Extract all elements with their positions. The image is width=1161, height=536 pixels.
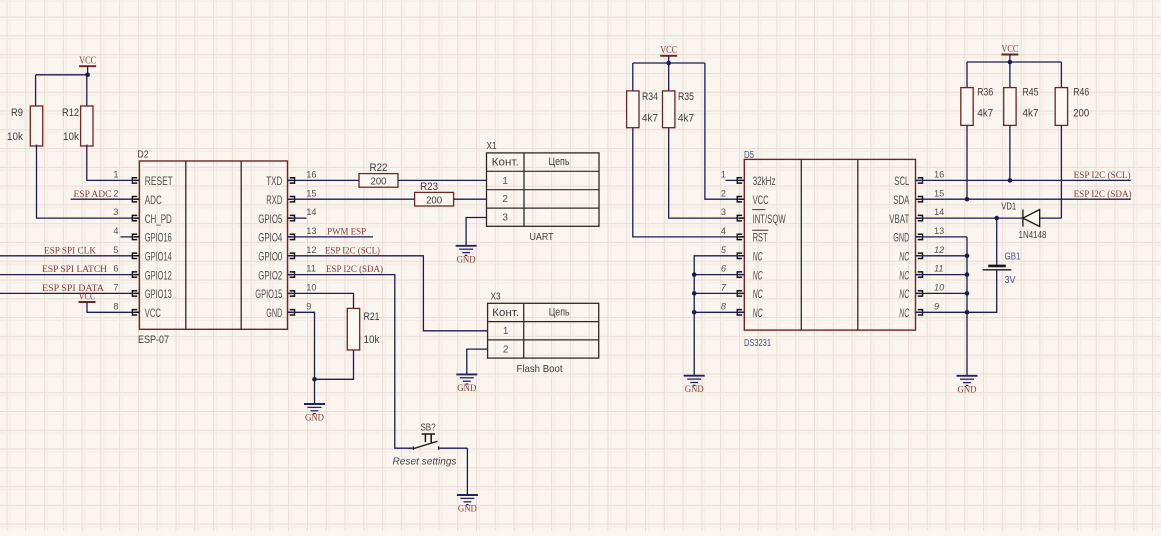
- pin 3 INT/SQW: [737, 215, 744, 220]
- svg-text:15: 15: [934, 188, 944, 198]
- wire R21 to GND net: [315, 350, 354, 379]
- svg-text:R22: R22: [370, 162, 388, 174]
- svg-text:PWM ESP: PWM ESP: [327, 227, 366, 238]
- wire GND pin 9: [288, 312, 315, 404]
- svg-text:11: 11: [306, 264, 316, 274]
- svg-text:VCC: VCC: [145, 306, 161, 320]
- pin 8 VCC: [132, 310, 139, 315]
- svg-text:3V: 3V: [1005, 275, 1016, 286]
- wire TXD to R22: [288, 179, 360, 181]
- svg-text:GB1: GB1: [1005, 252, 1021, 263]
- junction: [965, 310, 970, 315]
- svg-text:SDA: SDA: [893, 193, 909, 207]
- svg-text:9: 9: [934, 301, 939, 311]
- svg-text:TXD: TXD: [266, 174, 282, 188]
- pin 13 GND: [916, 234, 923, 239]
- svg-text:GPIO16: GPIO16: [145, 231, 172, 245]
- svg-text:CH_PD: CH_PD: [145, 212, 172, 226]
- wire ADC: [71, 198, 140, 200]
- svg-text:GND: GND: [893, 231, 909, 245]
- pin 9 GND: [288, 310, 295, 315]
- pin 16 SCL: [916, 178, 923, 183]
- resistor R12 (10k): [81, 106, 93, 146]
- svg-text:Reset settings: Reset settings: [393, 455, 458, 467]
- svg-text:NC: NC: [899, 306, 909, 320]
- resistor R21 (10k): [347, 308, 359, 350]
- svg-text:7: 7: [721, 283, 727, 293]
- svg-text:ADC: ADC: [145, 193, 162, 207]
- resistor R9 (10k): [30, 106, 42, 146]
- wire PWM_ESP: [288, 236, 374, 238]
- junction: [692, 310, 697, 315]
- svg-text:NC: NC: [753, 268, 763, 282]
- ground (SB): [457, 495, 478, 505]
- svg-text:4: 4: [113, 226, 118, 236]
- junction: [692, 291, 697, 296]
- wire GPIO0 to X3.1: [288, 256, 488, 331]
- svg-text:VCC: VCC: [1001, 44, 1018, 55]
- wire R23 to X1.2: [454, 198, 487, 200]
- junction: [1008, 60, 1013, 65]
- wire R36 to SDA: [966, 125, 968, 199]
- svg-text:R46: R46: [1073, 87, 1089, 99]
- svg-text:4k7: 4k7: [977, 107, 993, 119]
- junction: [965, 272, 970, 277]
- pin 14 GPIO5: [288, 217, 307, 219]
- svg-text:GND: GND: [457, 384, 476, 394]
- resistor R45 (4k7): [1004, 88, 1016, 126]
- svg-text:16: 16: [306, 170, 316, 180]
- svg-text:VCC: VCC: [660, 45, 677, 56]
- svg-text:RST: RST: [753, 231, 768, 245]
- svg-text:NC: NC: [899, 287, 909, 301]
- resistor R34 (4k7): [627, 91, 639, 128]
- svg-text:R36: R36: [977, 87, 993, 99]
- svg-text:2: 2: [503, 344, 509, 355]
- svg-text:D5: D5: [744, 150, 754, 161]
- connector X3 Flash Boot: [488, 303, 599, 358]
- svg-text:VCC: VCC: [753, 193, 769, 207]
- wire GPIO13: [0, 292, 139, 294]
- wire VCC stub: [668, 56, 670, 63]
- pin 16 TXD: [288, 178, 295, 183]
- wire GPIO15 to R21: [288, 293, 354, 308]
- wire GND bus: [966, 237, 968, 376]
- svg-text:3: 3: [502, 213, 508, 224]
- svg-text:ESP SPI LATCH: ESP SPI LATCH: [42, 264, 107, 275]
- wire to R46: [1060, 62, 1062, 88]
- ground (X3): [456, 374, 477, 384]
- junction: [965, 254, 970, 259]
- svg-text:1: 1: [721, 170, 726, 180]
- pin 12 NC: [916, 253, 923, 258]
- pin 4 GPIO16: [120, 236, 139, 238]
- wire VCC stub: [1009, 55, 1011, 63]
- svg-text:7: 7: [113, 283, 118, 293]
- wire R34 to RST: [633, 128, 745, 237]
- svg-text:NC: NC: [753, 287, 763, 301]
- svg-text:9: 9: [306, 301, 311, 311]
- wire pin12: [916, 255, 968, 257]
- svg-text:8: 8: [721, 301, 727, 311]
- svg-text:GPIO14: GPIO14: [145, 250, 172, 264]
- junction: [312, 377, 317, 382]
- svg-text:200: 200: [1073, 107, 1089, 119]
- svg-text:R12: R12: [62, 107, 79, 119]
- svg-text:GND: GND: [266, 306, 282, 320]
- resistor R23 (200): [415, 192, 454, 206]
- wire X1.3 to GND: [466, 218, 486, 246]
- battery GB1 3V: [988, 265, 1006, 268]
- svg-text:4k7: 4k7: [642, 112, 658, 124]
- pin 15 RXD: [288, 197, 295, 202]
- pin 5 GPIO14: [132, 253, 139, 258]
- junction: [692, 272, 697, 277]
- wire SDA: [916, 198, 1131, 200]
- pin 11 GPIO2: [288, 272, 295, 277]
- svg-text:GPIO2: GPIO2: [258, 268, 282, 282]
- svg-text:ESP I2C (SCL): ESP I2C (SCL): [325, 245, 380, 256]
- pin 4 RST: [737, 234, 744, 239]
- svg-text:10: 10: [934, 283, 945, 293]
- pin 13 GPIO4: [288, 234, 295, 239]
- overbar INT: [752, 209, 765, 211]
- wire R9 to CH_PD: [37, 145, 140, 219]
- wire SB to GND: [439, 447, 467, 449]
- junction: [994, 216, 999, 221]
- svg-text:2: 2: [502, 194, 508, 205]
- svg-text:R21: R21: [364, 311, 380, 323]
- svg-text:ESP ADC: ESP ADC: [74, 189, 112, 200]
- overbar RST: [752, 229, 768, 231]
- svg-text:SB?: SB?: [421, 421, 436, 433]
- svg-text:GND: GND: [685, 385, 704, 395]
- svg-text:RESET: RESET: [145, 174, 173, 188]
- svg-text:GPIO0: GPIO0: [258, 250, 282, 264]
- svg-text:16: 16: [934, 170, 944, 180]
- pin 15 SDA: [916, 197, 923, 202]
- svg-text:X3: X3: [491, 290, 501, 302]
- svg-text:NC: NC: [753, 306, 763, 320]
- pin 8 NC: [737, 310, 744, 315]
- pin 7 NC: [737, 291, 744, 296]
- resistor R22 (200): [359, 174, 398, 188]
- svg-text:ESP I2C (SCL): ESP I2C (SCL): [1074, 170, 1131, 181]
- svg-text:6: 6: [721, 264, 727, 274]
- junction: [85, 73, 90, 78]
- svg-text:15: 15: [306, 188, 316, 198]
- svg-text:12: 12: [306, 245, 316, 255]
- pin 12 GPIO0: [288, 253, 295, 258]
- svg-text:GPIO13: GPIO13: [145, 287, 172, 301]
- svg-text:R34: R34: [642, 91, 658, 103]
- wire pin11: [916, 274, 968, 276]
- wire VD1 to R46: [1040, 217, 1062, 219]
- pin 7 GPIO13: [132, 291, 139, 296]
- svg-text:32kHz: 32kHz: [753, 174, 776, 188]
- svg-text:3: 3: [721, 207, 726, 217]
- IC D2 ESP-07: [139, 161, 287, 329]
- svg-text:DS3231: DS3231: [744, 337, 771, 349]
- svg-text:VCC: VCC: [79, 56, 96, 67]
- wire pin9: [916, 311, 968, 313]
- wire down: [466, 448, 468, 495]
- wire to R35: [668, 63, 670, 91]
- pin 14 VBAT: [916, 215, 923, 220]
- resistor R36 (4k7): [961, 88, 973, 126]
- svg-text:ESP I2C (SDA): ESP I2C (SDA): [1074, 189, 1132, 200]
- wire VCC to pin 8: [87, 302, 139, 312]
- wire RXD to R23: [288, 198, 415, 200]
- wire pin6: [694, 274, 744, 276]
- svg-text:NC: NC: [899, 250, 909, 264]
- svg-text:NC: NC: [753, 250, 763, 264]
- junction: [965, 291, 970, 296]
- wire R46 to VD1: [1060, 125, 1062, 218]
- ground (D2): [304, 404, 325, 414]
- svg-text:Цепь: Цепь: [549, 156, 570, 168]
- wire VCC rail: [633, 62, 705, 64]
- wire GND pin13: [916, 236, 968, 238]
- wire VCC to D5 pin2: [705, 63, 744, 199]
- wire VBAT to VD1: [916, 217, 1023, 219]
- ground (X1): [456, 246, 477, 256]
- wire R35 to INT/SQW: [669, 128, 745, 218]
- wire pin10: [916, 292, 968, 294]
- svg-text:Цепь: Цепь: [549, 307, 570, 319]
- svg-text:GPIO5: GPIO5: [258, 212, 282, 226]
- svg-text:10k: 10k: [63, 131, 79, 143]
- svg-text:GND: GND: [457, 255, 476, 265]
- ground (D5 left): [684, 376, 705, 386]
- svg-text:2: 2: [721, 188, 726, 198]
- junction: [1008, 178, 1013, 183]
- svg-text:1: 1: [113, 170, 118, 180]
- svg-text:1: 1: [503, 326, 509, 337]
- svg-text:13: 13: [934, 226, 944, 236]
- svg-text:GND: GND: [958, 385, 977, 395]
- switch SB?: [413, 434, 438, 450]
- svg-text:4k7: 4k7: [1023, 107, 1039, 119]
- svg-text:10k: 10k: [364, 334, 380, 346]
- diode VD1 1N4148: [1023, 210, 1040, 227]
- svg-text:SCL: SCL: [894, 174, 909, 188]
- svg-text:4k7: 4k7: [678, 112, 694, 124]
- svg-text:VD1: VD1: [1001, 201, 1016, 213]
- svg-text:4: 4: [721, 226, 726, 236]
- svg-text:ESP-07: ESP-07: [138, 334, 169, 346]
- wire R12 to RESET: [87, 145, 140, 181]
- svg-text:GPIO12: GPIO12: [145, 268, 172, 282]
- pin 2 VCC: [737, 197, 744, 202]
- pin 6 NC: [737, 272, 744, 277]
- wire GPIO14: [0, 255, 139, 257]
- svg-text:Конт.: Конт.: [492, 307, 519, 319]
- svg-text:R35: R35: [678, 91, 694, 103]
- svg-text:R9: R9: [11, 107, 23, 119]
- wire to R45: [1009, 62, 1011, 88]
- pin 3 CH_PD: [132, 215, 139, 220]
- svg-text:GPIO15: GPIO15: [255, 287, 282, 301]
- junction: [666, 61, 671, 66]
- wire GB1 to GND bus: [967, 270, 997, 313]
- svg-text:D2: D2: [138, 149, 149, 161]
- svg-text:GPIO4: GPIO4: [258, 231, 282, 245]
- wire VCC rail: [967, 61, 1061, 63]
- pin 1 RESET: [132, 178, 139, 183]
- svg-text:8: 8: [113, 301, 118, 311]
- wire GPIO12: [0, 274, 139, 276]
- wire to R34: [632, 63, 634, 91]
- connector X1 UART: [487, 153, 600, 226]
- svg-text:RXD: RXD: [266, 193, 282, 207]
- svg-text:GND: GND: [305, 414, 324, 424]
- pin 2 ADC: [132, 197, 139, 202]
- svg-text:11: 11: [934, 264, 944, 274]
- svg-text:12: 12: [934, 245, 944, 255]
- wire R22 to X1.1: [398, 179, 487, 181]
- wire to R36: [966, 62, 968, 88]
- svg-text:13: 13: [306, 226, 316, 236]
- wire VCC rail: [36, 74, 88, 76]
- wire pin7: [694, 292, 744, 294]
- svg-text:200: 200: [426, 195, 442, 207]
- svg-text:200: 200: [371, 176, 387, 188]
- wire to R12: [86, 75, 88, 106]
- svg-text:GND: GND: [458, 505, 477, 515]
- pin 1 32kHz: [726, 179, 745, 181]
- svg-text:R45: R45: [1023, 87, 1039, 99]
- IC D5 DS3231: [744, 159, 915, 330]
- svg-text:UART: UART: [530, 231, 554, 243]
- wire GPIO2 to SB: [288, 275, 413, 449]
- pin 10 NC: [916, 291, 923, 296]
- pin 5 NC: [737, 253, 744, 258]
- wire X3.2 to GND: [467, 349, 488, 374]
- ground (D5 right): [957, 376, 978, 386]
- svg-text:INT/SQW: INT/SQW: [753, 212, 786, 226]
- svg-text:R23: R23: [420, 181, 438, 193]
- svg-text:X1: X1: [487, 140, 497, 152]
- pin 11 NC: [916, 272, 923, 277]
- wire R45 to SCL: [1009, 125, 1011, 180]
- svg-text:5: 5: [721, 245, 727, 255]
- svg-text:2: 2: [113, 188, 118, 198]
- svg-text:ESP I2C (SDA): ESP I2C (SDA): [326, 264, 383, 275]
- pin 6 GPIO12: [132, 272, 139, 277]
- svg-text:5: 5: [113, 245, 118, 255]
- svg-text:VCC: VCC: [79, 291, 96, 302]
- svg-text:1: 1: [502, 176, 508, 187]
- wire pin8: [694, 311, 744, 313]
- resistor R46 (200): [1055, 88, 1067, 126]
- pin 10 GPIO15: [288, 291, 295, 296]
- svg-text:14: 14: [306, 207, 316, 217]
- wire VCC stub: [87, 66, 89, 75]
- svg-text:VBAT: VBAT: [889, 212, 909, 226]
- junction: [965, 197, 970, 202]
- wire to R9: [35, 75, 37, 106]
- wire NC bus left: [694, 256, 744, 376]
- resistor R35 (4k7): [663, 91, 675, 128]
- svg-text:Flash Boot: Flash Boot: [517, 363, 563, 375]
- pin 9 NC: [916, 310, 923, 315]
- wire to GB1: [996, 218, 998, 265]
- svg-text:ESP SPI CLK: ESP SPI CLK: [44, 245, 96, 256]
- svg-text:1N4148: 1N4148: [1019, 229, 1047, 241]
- svg-text:NC: NC: [899, 268, 909, 282]
- wire SCL: [916, 179, 1131, 181]
- svg-text:Конт.: Конт.: [492, 157, 519, 169]
- svg-text:10: 10: [306, 283, 316, 293]
- svg-text:10k: 10k: [7, 131, 23, 143]
- svg-text:3: 3: [113, 207, 118, 217]
- svg-text:6: 6: [113, 264, 118, 274]
- svg-text:14: 14: [934, 207, 944, 217]
